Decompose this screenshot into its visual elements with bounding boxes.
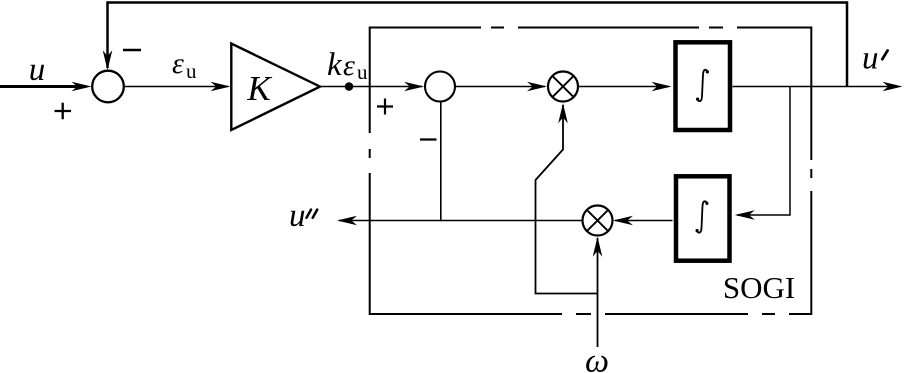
summer S2 minus sign	[420, 138, 437, 140]
multiplier M1	[548, 72, 578, 102]
wire: feedback down to integrator I2	[737, 87, 790, 216]
wire: M2 output to u''	[339, 220, 583, 222]
arrow up into multiplier M2	[593, 237, 603, 257]
wire: M1 to integrator I1	[578, 86, 669, 88]
svg-text:u: u	[357, 60, 368, 84]
multiplier M2	[583, 206, 613, 236]
svg-text:ε: ε	[343, 49, 355, 82]
arrow up into multiplier M1	[558, 103, 568, 123]
svg-text:u: u	[862, 41, 879, 77]
arrow output u'	[883, 82, 903, 92]
arrow into multiplier M1	[527, 82, 547, 92]
wire: K to summer S2	[320, 86, 422, 88]
SOGI dash-dot box right border	[810, 27, 812, 316]
integrator I2	[676, 176, 730, 260]
summer S1 minus sign	[123, 49, 141, 51]
SOGI dash-dot box left border	[369, 27, 371, 316]
arrow into summer S2	[404, 82, 424, 92]
wire: S2 to multiplier M1	[455, 86, 545, 88]
svg-text:SOGI: SOGI	[723, 270, 795, 305]
svg-text:ε: ε	[172, 47, 184, 80]
wire: top feedback from output line	[108, 3, 848, 87]
svg-text:ω: ω	[585, 343, 609, 373]
wire: S2 down to u'' line	[440, 102, 442, 222]
wire: I1 output to u'	[733, 86, 898, 88]
SOGI dash-dot box top border	[370, 27, 811, 29]
svg-text:u: u	[186, 59, 197, 83]
wire: I2 output to multiplier M2	[615, 220, 673, 222]
wire: omega branch to multiplier M1	[536, 105, 598, 294]
svg-text:u: u	[289, 198, 306, 234]
summer S2	[425, 72, 455, 102]
summer S1 plus sign	[55, 103, 72, 120]
svg-text:u: u	[29, 52, 46, 88]
op-amp / gain triangle K	[231, 44, 320, 131]
arrow into multiplier M2	[613, 216, 633, 226]
arrow into summer S1	[72, 82, 92, 92]
arrow down into summer S1	[103, 50, 113, 70]
summer S2 plus sign	[377, 99, 393, 115]
svg-text:K: K	[246, 69, 272, 108]
integrator I1	[676, 42, 731, 130]
arrow output u''	[337, 216, 357, 226]
node dot k-epsilon-u	[345, 82, 354, 91]
summer S1	[92, 71, 124, 103]
wire: omega input	[597, 238, 599, 347]
arrow into integrator I2	[735, 210, 755, 220]
arrow into amplifier K	[211, 82, 231, 92]
SOGI dash-dot box bottom border	[370, 313, 812, 315]
wire: S1 to amplifier K	[124, 86, 228, 88]
svg-text:k: k	[327, 47, 343, 83]
arrow into integrator I1	[652, 82, 672, 92]
wire: input u line	[0, 85, 80, 88]
